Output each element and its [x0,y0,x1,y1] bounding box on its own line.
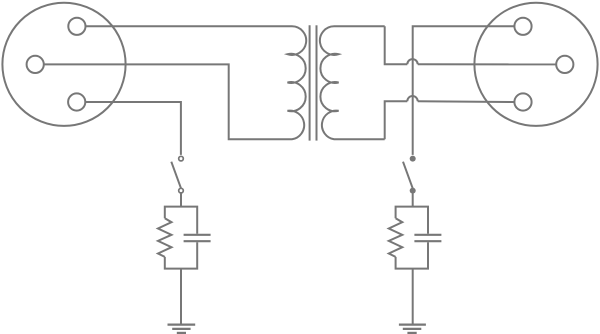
capacitor C2 bottom plate [414,240,441,242]
wire hop over right bus (lower row) [407,96,417,101]
wire hop over right bus (middle row) [407,59,417,64]
ground symbol 2 bar 2 [403,328,422,330]
wire: secondary bottom lead rise to lower row [385,101,408,139]
wire: RC box 1 to ground [180,269,182,325]
switch SW2 upper contact (filled) [410,156,416,162]
capacitor C1 bottom plate [184,240,211,242]
ground symbol 2 bar 3 [407,332,416,334]
connector J1 shell (left XLR) [2,3,125,126]
RC network 1 box top [165,207,197,234]
ground symbol 1 bar 1 [168,324,196,326]
connector J1 pin 1 (bottom) [68,93,85,110]
wire: J1 pin2 to transformer primary top + primary winding + bottom lead to J1 pin3 [44,26,306,139]
transformer secondary winding with top lead to corner and bottom lead [320,26,385,139]
connector J1 pin 3 (middle) [27,56,44,73]
connector J2 pin 3 (middle) [556,56,573,73]
capacitor C2 top plate [414,234,441,236]
transformer T1 core line 2 [316,25,318,140]
wire: lower row to J2 pin1 [418,100,515,103]
wire: secondary top lead drop to middle row [385,26,408,64]
switch SW1 lower contact [179,188,184,193]
switch SW1 upper contact [179,156,184,161]
wire: SW1 to RC box 1 [180,193,182,206]
RC network 1 box bottom [165,242,197,268]
connector J2 shell (right XLR) [474,3,597,126]
RC network 2 box top [396,207,428,234]
wire: J2 pin2 to right ground bus, down to switch SW2 [413,26,515,155]
connector J2 pin 1 (bottom) [514,93,531,110]
resistor R2 zigzag [389,218,403,257]
switch SW1 blade [171,162,181,189]
wire: middle row to J2 pin3 [418,63,557,65]
wire: J1 pin1 down to switch SW1 [85,102,181,155]
ground symbol 1 bar 2 [172,328,190,330]
switch SW2 lower contact (filled) [410,188,416,194]
capacitor C1 top plate [184,234,211,236]
connector J1 pin 2 (top) [68,18,85,35]
transformer T1 core line 1 [309,25,311,140]
RC network 2 box bottom [396,242,428,268]
resistor R1 zigzag [158,218,172,257]
switch SW2 blade [403,162,413,189]
ground symbol 2 bar 1 [399,324,426,326]
wire: RC box 2 to ground [412,269,414,325]
wire: SW2 to RC box 2 [412,193,414,206]
ground symbol 1 bar 3 [177,332,186,334]
connector J2 pin 2 (top) [514,18,531,35]
